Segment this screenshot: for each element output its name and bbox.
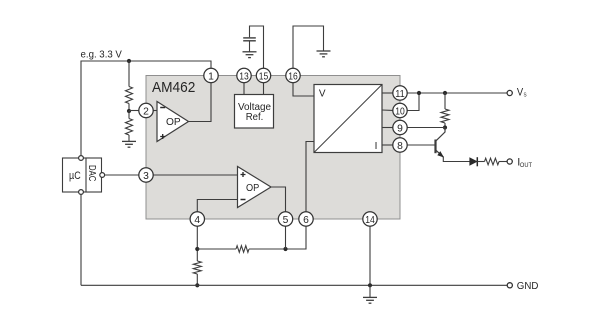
svg-text:OP: OP [166, 117, 181, 128]
svg-text:15: 15 [259, 72, 269, 83]
pin 13 [237, 68, 251, 82]
svg-text:4: 4 [194, 215, 200, 226]
pin 6 [299, 212, 313, 226]
ground divider [122, 141, 136, 147]
wire pin 3 to OP2 non-inverting input [153, 174, 238, 176]
wire supply rail e.g. 3.3V: left drop, top run, down to pin 1 [81, 61, 211, 156]
junction collector node [443, 125, 447, 129]
emitter lead [436, 150, 443, 157]
emitter arrow [437, 151, 444, 157]
resistor R4 (sense) [441, 109, 449, 123]
wire R6 to Iout terminal [499, 161, 507, 163]
pin 4 [190, 212, 204, 226]
svg-text:10: 10 [395, 107, 405, 118]
resistor R3 (pin 4 to ground) [193, 261, 201, 274]
terminal Vs [507, 90, 512, 95]
wire V/I converter to pin 10 [382, 109, 393, 111]
ground system [363, 297, 377, 303]
collector lead [436, 128, 445, 141]
svg-text:13: 13 [239, 72, 249, 83]
svg-text:GND: GND [517, 281, 539, 292]
svg-text:8: 8 [397, 141, 403, 152]
wire pin 15 to voltage ref [263, 83, 265, 95]
wire divider node down [128, 111, 130, 119]
pin 16 [286, 68, 300, 82]
junction sense resistor top [443, 91, 447, 95]
IC body AM462 (gray block) [146, 76, 400, 220]
wire pin 5 to feedback node [285, 226, 287, 249]
ground pin 16 [317, 51, 331, 57]
wire pin 10 up to supply line [407, 93, 419, 111]
junction pin 14/ground rail [368, 283, 372, 287]
svg-text:I: I [375, 141, 378, 152]
V/I converter block [314, 85, 382, 153]
terminal uC bottom [79, 190, 84, 195]
wire OP2 inverting input to pin 4 [197, 200, 237, 213]
svg-text:OUT: OUT [520, 162, 532, 169]
junction pin 10/supply [417, 91, 421, 95]
wire emitter to diode [443, 157, 469, 162]
pin 9 [393, 120, 407, 134]
terminal GND [507, 283, 512, 288]
svg-text:1: 1 [208, 72, 214, 83]
junction pin 5 node [283, 247, 287, 251]
svg-text:AM462: AM462 [152, 79, 195, 96]
terminal Iout [507, 159, 512, 164]
resistor R5 (feedback) [236, 246, 249, 253]
pin 14 [363, 212, 377, 226]
wire OP1 output to pin 1 [189, 83, 212, 122]
wire divider node to pin 2 [129, 110, 139, 112]
wire pin 2 to OP1 inverting input [153, 110, 157, 112]
wire pin 11 to Vs terminal [407, 92, 507, 94]
wire R5 to pin5/pin6 node [249, 226, 306, 249]
svg-text:6: 6 [303, 215, 309, 226]
resistor R6 (output) [485, 158, 500, 165]
op-amp OP2 [238, 167, 272, 208]
wire pin 6 to V/I converter [306, 142, 314, 213]
wire pin 13 to voltage ref [243, 83, 245, 95]
svg-text:S: S [524, 93, 527, 99]
wire capacitor to ground [249, 42, 251, 52]
wire V/I converter to pin 11 [382, 92, 393, 94]
wire R3 to ground rail [196, 274, 198, 285]
pin 5 [278, 212, 292, 226]
junction feedback node [195, 247, 199, 251]
svg-text:14: 14 [365, 215, 375, 226]
DAC box [86, 158, 102, 192]
svg-text:e.g. 3.3 V: e.g. 3.3 V [81, 49, 123, 60]
wire supply to sense resistor [444, 93, 446, 109]
terminal DAC output [100, 173, 105, 178]
svg-text:3: 3 [143, 171, 149, 182]
wire pin 16 into V/I converter [293, 83, 314, 97]
base wire from pin 8 [407, 144, 435, 146]
svg-text:Ref.: Ref. [246, 112, 264, 123]
wire pin 14 to ground rail [369, 226, 371, 285]
voltage reference box [235, 95, 274, 129]
pin 3 [139, 168, 153, 182]
ground rail [81, 284, 507, 286]
svg-text:9: 9 [397, 124, 403, 135]
wire pin 4 down [196, 226, 198, 261]
wire pin 9 to collector node [407, 127, 445, 129]
wire uC bottom to ground rail [80, 194, 82, 285]
svg-text:11: 11 [395, 89, 405, 100]
pin 1 [204, 68, 218, 82]
wire R1 to divider node [128, 104, 130, 112]
svg-text:OP: OP [246, 183, 260, 194]
resistor R1 (upper divider) [126, 87, 133, 104]
wire R2 to ground [128, 135, 130, 141]
ground capacitor [243, 52, 257, 58]
resistor R2 (lower divider) [126, 119, 133, 136]
wire sense resistor to collector node [444, 123, 446, 128]
wire diode to resistor R6 [477, 161, 484, 163]
svg-text:2: 2 [143, 107, 149, 118]
pin 15 [256, 68, 270, 82]
wire OP2 output to pin 5 [271, 187, 286, 212]
pin 2 [139, 103, 153, 117]
junction divider node [127, 109, 131, 113]
pin 8 [393, 138, 407, 152]
junction supply/divider [127, 59, 131, 63]
junction R3/ground rail [195, 283, 199, 287]
wire divider top segment [128, 61, 130, 87]
wire stub system ground [369, 285, 371, 297]
op-amp OP1 [157, 102, 189, 142]
wire V/I converter to pin 9 [382, 127, 393, 129]
wire DAC output to pin 3 [105, 174, 139, 176]
wire feedback node to resistor R5 [197, 248, 236, 250]
terminal uC top [79, 156, 84, 161]
svg-text:µC: µC [69, 170, 81, 182]
microcontroller box [63, 158, 90, 192]
pin 10 [393, 103, 407, 117]
diode D1 [470, 157, 478, 166]
base bar [434, 140, 436, 154]
wire pin 15 to blocking capacitor [250, 26, 264, 69]
transistor Q1 [407, 128, 445, 158]
svg-text:16: 16 [288, 72, 298, 83]
pin 11 [393, 86, 407, 100]
svg-text:5: 5 [283, 215, 289, 226]
svg-text:DAC: DAC [86, 165, 98, 182]
wire pin 16 to ground [293, 26, 324, 69]
wire V/I converter to pin 8 [382, 144, 393, 146]
capacitor C1 [243, 38, 256, 41]
svg-text:V: V [319, 89, 326, 100]
